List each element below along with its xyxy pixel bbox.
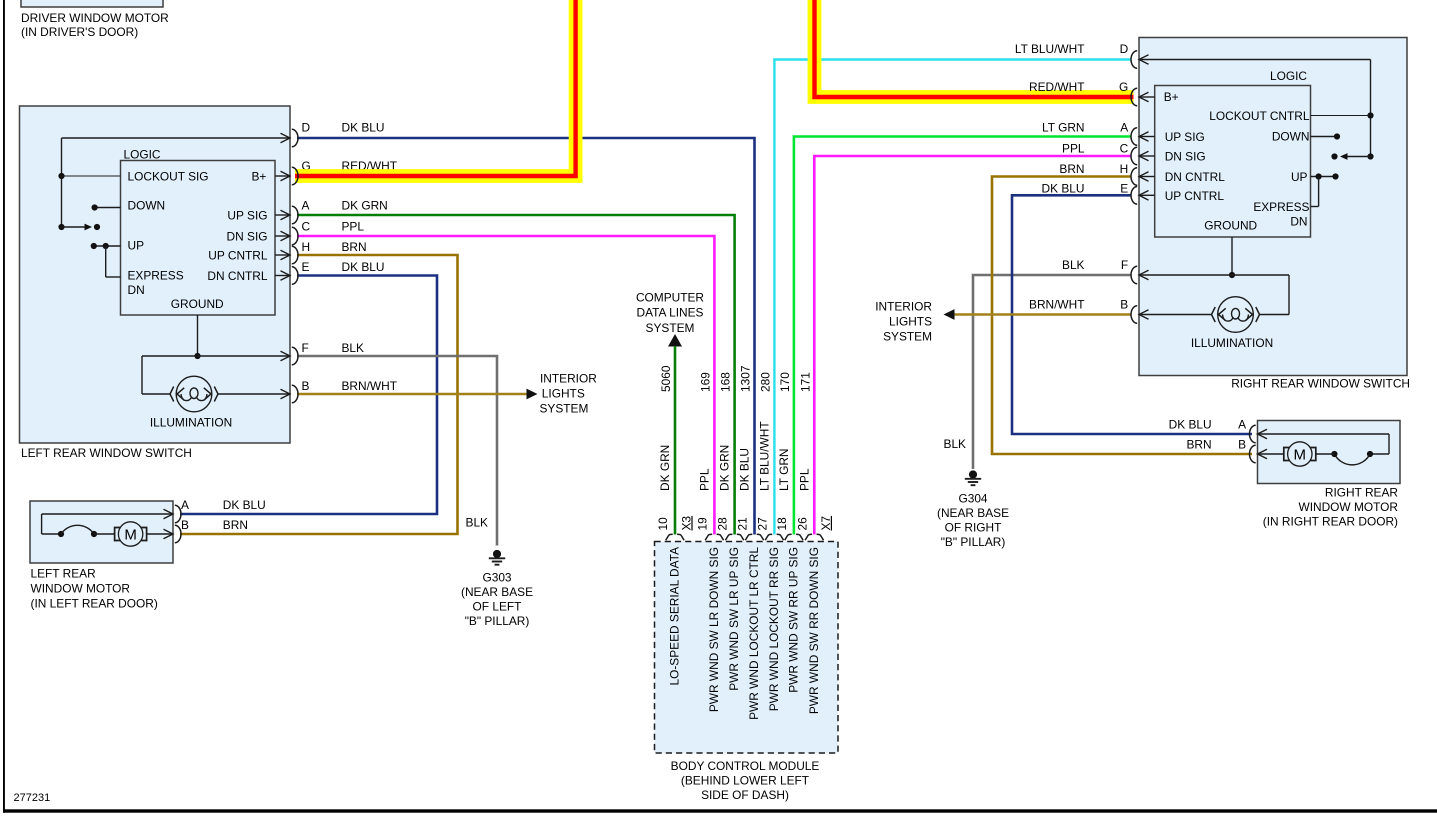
svg-text:27: 27	[755, 517, 769, 531]
wire: DK GRN ckt5060 (BCM 10 to data lines)	[674, 346, 677, 535]
svg-text:PWR WND SW RR DOWN SIG: PWR WND SW RR DOWN SIG	[807, 547, 821, 714]
svg-text:SYSTEM: SYSTEM	[883, 330, 932, 344]
svg-text:SYSTEM: SYSTEM	[540, 402, 589, 416]
pin C arrow (DN SIG right)	[1139, 151, 1149, 161]
pin C connector (left switch)	[292, 227, 298, 245]
pin F connector (right switch)	[1131, 266, 1137, 284]
pin G arrow (B+)	[275, 175, 289, 177]
wire: pin D internal (left switch)	[62, 137, 290, 139]
contact arc (right motor)	[1367, 451, 1373, 457]
BCM pin 19 connector	[705, 534, 723, 540]
svg-text:LEFT REAR WINDOW SWITCH: LEFT REAR WINDOW SWITCH	[21, 446, 192, 460]
svg-text:F: F	[1121, 258, 1128, 272]
wire: lockout sig to logic	[62, 175, 121, 177]
svg-text:5060: 5060	[659, 365, 673, 392]
contact arc (left motor)	[58, 531, 64, 537]
svg-text:PPL: PPL	[342, 219, 365, 233]
pin H arrow (UP CNTRL)	[275, 254, 289, 256]
svg-text:UP: UP	[128, 239, 145, 253]
illumination lamp (left switch)	[176, 376, 212, 412]
svg-text:DN CNTRL: DN CNTRL	[1165, 170, 1226, 184]
pin H connector (left switch)	[292, 246, 298, 264]
svg-text:DRIVER WINDOW MOTOR: DRIVER WINDOW MOTOR	[21, 11, 169, 25]
wire: motor to pin B (left motor)	[147, 533, 172, 535]
svg-text:DOWN: DOWN	[128, 199, 166, 213]
svg-text:A: A	[302, 198, 310, 212]
svg-text:OF LEFT: OF LEFT	[473, 600, 522, 614]
svg-text:171: 171	[798, 372, 812, 392]
left rear window motor box	[30, 501, 173, 563]
svg-text:UP CNTRL: UP CNTRL	[208, 249, 268, 263]
svg-text:PWR WND LOCKOUT RR SIG: PWR WND LOCKOUT RR SIG	[767, 547, 781, 711]
svg-text:(IN LEFT REAR DOOR): (IN LEFT REAR DOOR)	[31, 597, 158, 611]
pin E arrow (UP CNTRL right)	[1139, 191, 1149, 201]
pin A connector (left switch)	[292, 206, 298, 224]
svg-text:OF RIGHT: OF RIGHT	[945, 521, 1002, 535]
pin B connector (right switch)	[1131, 306, 1137, 324]
svg-text:INTERIOR: INTERIOR	[540, 372, 597, 386]
svg-text:B: B	[1238, 438, 1246, 452]
svg-text:(IN DRIVER'S DOOR): (IN DRIVER'S DOOR)	[21, 25, 138, 39]
svg-text:ILLUMINATION: ILLUMINATION	[1191, 336, 1273, 350]
wire: BRN/WHT (left switch B to interior lights)	[297, 393, 527, 396]
svg-text:X3: X3	[679, 516, 693, 531]
wire: express dn link	[105, 246, 107, 277]
svg-text:RED/WHT: RED/WHT	[1029, 80, 1084, 94]
BCM pin 10 connector	[666, 534, 684, 540]
svg-text:DN CNTRL: DN CNTRL	[207, 269, 268, 283]
svg-text:BRN/WHT: BRN/WHT	[1029, 297, 1084, 311]
svg-text:(NEAR BASE: (NEAR BASE	[461, 585, 533, 599]
wire: motor loop (left motor)	[42, 513, 172, 515]
svg-text:G: G	[1119, 80, 1128, 94]
pin C arrow (DN SIG)	[275, 235, 289, 237]
svg-text:LT BLU/WHT: LT BLU/WHT	[757, 421, 771, 491]
pin G connector (left switch)	[292, 167, 298, 185]
wire: BLK (right switch F to G304)	[973, 275, 1132, 469]
pin E arrow (DN CNTRL)	[275, 275, 289, 277]
wire: pin D internal (right switch)	[1139, 55, 1149, 65]
svg-text:ILLUMINATION: ILLUMINATION	[150, 416, 232, 430]
svg-text:BRN: BRN	[1186, 438, 1211, 452]
svg-text:DATA LINES: DATA LINES	[637, 306, 704, 320]
motor M1 (left rear)	[115, 528, 122, 541]
ground G303	[493, 550, 501, 558]
wire: contact to motor (left motor)	[94, 533, 115, 535]
svg-text:DN: DN	[1290, 215, 1307, 229]
pin G connector (right switch)	[1131, 88, 1137, 106]
wire: pin F internal (left switch)	[142, 355, 289, 357]
pin C connector (right switch)	[1131, 147, 1137, 165]
BCM pin 28 connector	[725, 534, 743, 540]
svg-text:(BEHIND LOWER LEFT: (BEHIND LOWER LEFT	[681, 774, 809, 788]
svg-text:G304: G304	[958, 492, 987, 506]
svg-text:LT BLU/WHT: LT BLU/WHT	[1015, 42, 1085, 56]
pin H arrow (DN CNTRL right)	[1139, 172, 1149, 182]
pin A connector (right switch)	[1131, 128, 1137, 146]
BCM pin 18 connector	[785, 534, 803, 540]
svg-text:BRN: BRN	[1059, 162, 1084, 176]
svg-text:10: 10	[656, 517, 670, 531]
pin H connector (right switch)	[1131, 168, 1137, 186]
arrow to interior lights system (right)	[944, 309, 955, 320]
pin A arrow (UP SIG right)	[1139, 132, 1149, 142]
wire: express dn link (right switch)	[1318, 177, 1320, 207]
wire: DK BLU (left switch E to left motor A)	[180, 276, 437, 515]
svg-text:DK GRN: DK GRN	[658, 445, 672, 491]
BCM pin 21 connector	[745, 534, 763, 540]
svg-text:B: B	[302, 379, 310, 393]
wire: lockout bus (left switch)	[61, 138, 63, 227]
svg-text:INTERIOR: INTERIOR	[875, 300, 932, 314]
svg-text:UP SIG: UP SIG	[227, 209, 267, 223]
wire: up contact stub	[94, 245, 121, 247]
svg-text:LO-SPEED SERIAL DATA: LO-SPEED SERIAL DATA	[667, 547, 681, 686]
wire: PPL ckt171 (right switch C to BCM 26)	[814, 156, 1131, 535]
svg-text:EXPRESS: EXPRESS	[128, 268, 184, 282]
junction: lockout sig	[58, 173, 64, 179]
svg-text:DN: DN	[128, 283, 145, 297]
svg-text:LIGHTS: LIGHTS	[542, 387, 585, 401]
svg-text:170: 170	[778, 372, 792, 392]
body control module box (dashed)	[655, 542, 839, 754]
right rear window motor box	[1258, 421, 1401, 484]
svg-text:A: A	[1238, 418, 1246, 432]
right rear window switch box	[1139, 38, 1407, 376]
left rear window switch box	[20, 106, 291, 443]
svg-text:DK BLU: DK BLU	[342, 120, 385, 134]
svg-text:LOCKOUT CNTRL: LOCKOUT CNTRL	[1209, 109, 1310, 123]
illumination lamp (right switch)	[1218, 297, 1254, 333]
pin B connector (right motor)	[1250, 445, 1256, 463]
svg-text:UP: UP	[1291, 170, 1308, 184]
svg-text:WINDOW MOTOR: WINDOW MOTOR	[1298, 500, 1398, 514]
svg-text:F: F	[302, 341, 309, 355]
svg-text:169: 169	[698, 372, 712, 392]
ground G304	[969, 470, 977, 478]
svg-text:BLK: BLK	[944, 437, 967, 451]
svg-text:COMPUTER: COMPUTER	[636, 291, 704, 305]
svg-text:BRN: BRN	[223, 518, 248, 532]
svg-text:LOGIC: LOGIC	[124, 148, 161, 162]
svg-text:26: 26	[795, 517, 809, 531]
svg-text:WINDOW MOTOR: WINDOW MOTOR	[31, 582, 131, 596]
svg-text:SYSTEM: SYSTEM	[646, 321, 695, 335]
wire: lamp to pin B (left switch)	[218, 393, 289, 395]
svg-text:DN SIG: DN SIG	[227, 230, 268, 244]
svg-text:G303: G303	[482, 571, 511, 585]
svg-text:C: C	[1120, 142, 1129, 156]
svg-text:B: B	[1120, 297, 1128, 311]
svg-text:UP CNTRL: UP CNTRL	[1165, 189, 1225, 203]
wire: down contact stub (right switch)	[1311, 136, 1338, 138]
svg-text:BRN/WHT: BRN/WHT	[342, 379, 397, 393]
svg-text:X7: X7	[819, 516, 833, 531]
pin G arrow (B+ right)	[1139, 92, 1149, 102]
svg-text:LT GRN: LT GRN	[1042, 121, 1085, 135]
arrow to computer data lines system	[668, 334, 682, 347]
BCM pin 27 connector	[765, 534, 783, 540]
svg-text:BLK: BLK	[342, 341, 365, 355]
svg-text:B+: B+	[1164, 90, 1179, 104]
wire: ground drop (left switch)	[197, 315, 199, 356]
pin A arrow (UP SIG)	[275, 214, 289, 216]
wire: DK GRN ckt168 (left switch A to BCM 28)	[297, 215, 735, 535]
svg-text:EXPRESS: EXPRESS	[1253, 200, 1309, 214]
svg-text:DN SIG: DN SIG	[1165, 150, 1206, 164]
pin D connector (left switch)	[292, 129, 298, 147]
pin A connector (right motor)	[1250, 425, 1256, 443]
wire: RED/WHT highlight (left switch G to top)	[295, 0, 576, 176]
junction: ground/F	[194, 353, 200, 359]
svg-text:H: H	[302, 240, 311, 254]
pin D connector (right switch)	[1131, 51, 1137, 69]
svg-text:28: 28	[716, 517, 730, 531]
svg-text:RIGHT REAR: RIGHT REAR	[1325, 486, 1399, 500]
svg-text:DK GRN: DK GRN	[342, 198, 388, 212]
wire: lockout cntrl to logic	[1311, 115, 1371, 117]
svg-text:UP SIG: UP SIG	[1165, 130, 1205, 144]
svg-text:LEFT REAR: LEFT REAR	[31, 567, 97, 581]
wire: motor loop (right motor)	[1258, 429, 1268, 439]
svg-text:E: E	[302, 260, 310, 274]
svg-text:A: A	[1120, 121, 1128, 135]
wiper arrow (left switch)	[58, 224, 64, 230]
driver window motor (partial box)	[21, 0, 163, 7]
wire: pin F internal (right switch)	[1139, 270, 1149, 280]
wire: RED/WHT highlight (right switch G to top)	[815, 0, 1134, 97]
svg-text:H: H	[1120, 162, 1129, 176]
svg-text:PWR WND LOCKOUT LR CTRL: PWR WND LOCKOUT LR CTRL	[747, 547, 761, 720]
svg-text:PPL: PPL	[697, 468, 711, 491]
wire: LT GRN ckt170 (right switch A to BCM 18)	[794, 137, 1132, 535]
svg-text:BRN: BRN	[342, 240, 367, 254]
svg-text:LIGHTS: LIGHTS	[889, 315, 932, 329]
svg-text:PWR WND SW LR DOWN SIG: PWR WND SW LR DOWN SIG	[707, 547, 721, 712]
svg-text:PPL: PPL	[797, 468, 811, 491]
wire: down contact stub	[95, 207, 121, 209]
wire: LT BLU/WHT ckt280 (right switch D to BCM 27)	[774, 60, 1131, 535]
pin E connector (right switch)	[1131, 187, 1137, 205]
svg-text:DK GRN: DK GRN	[718, 445, 732, 491]
wire: lamp feed (left switch)	[141, 356, 143, 394]
wire: lamp feed (right switch)	[1288, 275, 1290, 315]
svg-text:B+: B+	[252, 169, 267, 183]
svg-text:M: M	[124, 526, 137, 543]
wire: DK BLU (right switch E to right motor A)	[1012, 195, 1252, 434]
logic block (right switch)	[1155, 86, 1311, 238]
svg-text:BLK: BLK	[1062, 258, 1085, 272]
svg-text:DOWN: DOWN	[1272, 130, 1310, 144]
svg-text:C: C	[302, 219, 311, 233]
wire: BRN (left switch H to left motor B)	[180, 255, 458, 534]
svg-text:LOGIC: LOGIC	[1270, 69, 1307, 83]
pin B connector (left switch)	[292, 385, 298, 403]
svg-text:PWR WND SW RR UP SIG: PWR WND SW RR UP SIG	[786, 547, 800, 693]
svg-text:1307: 1307	[739, 365, 753, 392]
svg-text:DK BLU: DK BLU	[1042, 181, 1085, 195]
svg-text:DK BLU: DK BLU	[223, 498, 266, 512]
arrow to interior lights system (left)	[527, 389, 538, 400]
wire: motor to pin B (right motor)	[1258, 449, 1268, 459]
svg-text:"B" PILLAR): "B" PILLAR)	[941, 535, 1006, 549]
svg-text:(IN RIGHT REAR DOOR): (IN RIGHT REAR DOOR)	[1263, 515, 1398, 529]
svg-text:E: E	[1120, 181, 1128, 195]
svg-text:DK BLU: DK BLU	[342, 260, 385, 274]
svg-text:277231: 277231	[14, 792, 51, 804]
svg-text:21: 21	[736, 517, 750, 531]
wire: PPL ckt169 (left switch C to BCM 19)	[297, 236, 714, 535]
svg-text:BLK: BLK	[466, 516, 489, 530]
svg-text:"B" PILLAR): "B" PILLAR)	[465, 614, 530, 628]
wire: ground drop (right switch)	[1231, 237, 1233, 275]
wire: BLK (left switch F to G303)	[297, 356, 497, 546]
svg-text:SIDE OF DASH): SIDE OF DASH)	[701, 788, 789, 802]
BCM pin 26 connector	[805, 534, 823, 540]
svg-text:BODY CONTROL MODULE: BODY CONTROL MODULE	[671, 759, 820, 773]
wire: DK BLU ckt1307 (left switch D to BCM 21)	[297, 138, 755, 535]
svg-text:M: M	[1294, 446, 1307, 463]
pin F connector (left switch)	[292, 347, 298, 365]
svg-text:RIGHT REAR WINDOW SWITCH: RIGHT REAR WINDOW SWITCH	[1231, 377, 1410, 391]
svg-text:19: 19	[695, 517, 709, 531]
wire: BRN (right switch H to right motor B)	[992, 177, 1252, 455]
svg-text:PWR WND SW LR UP SIG: PWR WND SW LR UP SIG	[727, 547, 741, 691]
svg-text:B: B	[181, 518, 189, 532]
svg-text:LOCKOUT SIG: LOCKOUT SIG	[128, 169, 209, 183]
svg-text:18: 18	[775, 517, 789, 531]
svg-text:LT GRN: LT GRN	[777, 448, 791, 491]
svg-text:GROUND: GROUND	[1204, 219, 1257, 233]
wire: lamp to pin B (right switch)	[1139, 310, 1149, 320]
svg-text:168: 168	[719, 372, 733, 392]
svg-text:PPL: PPL	[1062, 142, 1085, 156]
svg-text:D: D	[302, 120, 311, 134]
svg-text:A: A	[181, 498, 189, 512]
motor M2 (right rear)	[1284, 448, 1291, 461]
wire: lockout bus (right switch)	[1370, 60, 1372, 157]
pin E connector (left switch)	[292, 267, 298, 285]
wiper arrow (right switch)	[1367, 153, 1373, 159]
svg-text:GROUND: GROUND	[171, 297, 224, 311]
svg-text:280: 280	[758, 372, 772, 392]
svg-text:DK BLU: DK BLU	[738, 448, 752, 491]
wire: BRN/WHT (right switch B to interior lights)	[954, 313, 1132, 316]
logic block (left switch)	[121, 161, 276, 316]
wire: motor to contact (right motor)	[1316, 453, 1335, 455]
svg-text:D: D	[1120, 42, 1129, 56]
pin B connector (left motor)	[175, 525, 181, 543]
junction: ground/F (right switch)	[1229, 272, 1235, 278]
svg-text:DK BLU: DK BLU	[1169, 418, 1212, 432]
pin A connector (left motor)	[175, 505, 181, 523]
junction: lockout cntrl	[1367, 112, 1373, 118]
wire: up contact stub (right switch)	[1311, 176, 1336, 178]
svg-text:(NEAR BASE: (NEAR BASE	[937, 506, 1009, 520]
